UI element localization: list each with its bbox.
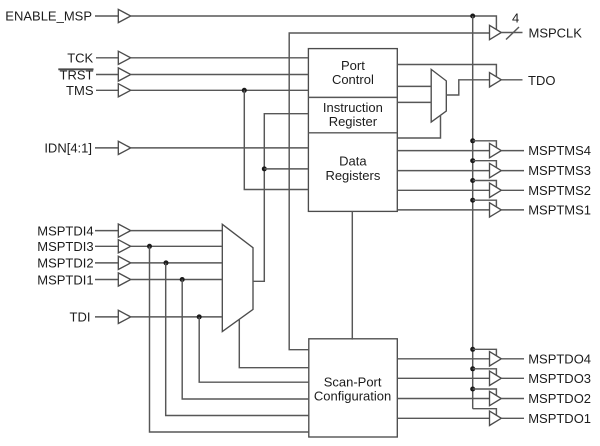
- svg-text:MSPTMS3: MSPTMS3: [528, 163, 591, 178]
- node enable MSPTDO3: [470, 366, 475, 371]
- wire MSPTDI1 to buffer: [95, 279, 118, 281]
- buffer MSPTDI3: [118, 240, 130, 253]
- wire port control TDO enable: [397, 65, 496, 78]
- wire enable jog MSPTDO3: [473, 369, 497, 376]
- wire IDN to data registers: [131, 147, 309, 149]
- output MSPTDO1 buffer: [490, 411, 502, 425]
- svg-text:Scan-Port: Scan-Port: [324, 375, 382, 390]
- wire MSPTDO1 from scan-port: [397, 417, 489, 419]
- wire enable jog MSPTDO4: [473, 349, 497, 356]
- buffer MSPTDI1: [118, 273, 130, 286]
- wire TDI to mux: [131, 316, 223, 318]
- wire instruction register to mux M2 input 2: [397, 101, 431, 103]
- wire IDN to buffer: [95, 147, 118, 149]
- wire ENABLE_MSP to buffer: [95, 15, 118, 17]
- svg-text:MSPTDI2: MSPTDI2: [37, 256, 93, 271]
- output TDO buffer: [490, 73, 502, 87]
- node MSPTDI3 junction: [147, 244, 152, 249]
- node ENABLE_MSP junction: [470, 14, 475, 19]
- svg-text:Instruction: Instruction: [323, 100, 383, 115]
- svg-text:Configuration: Configuration: [314, 388, 391, 403]
- wire TDO output: [501, 79, 522, 81]
- svg-text:MSPTDI3: MSPTDI3: [37, 239, 93, 254]
- output MSPTMS3 buffer: [490, 163, 502, 177]
- svg-text:MSPTDO3: MSPTDO3: [528, 371, 591, 386]
- wire MSPTDI2 to mux: [131, 262, 223, 264]
- svg-text:MSPTDO2: MSPTDO2: [528, 391, 591, 406]
- wire TMS to port control: [131, 89, 309, 91]
- wire MSPTDO4 from scan-port: [397, 358, 489, 360]
- output MSPTDO4 buffer: [490, 352, 502, 366]
- output MSPCLK buffer: [490, 25, 502, 39]
- wire enable jog MSPTMS2: [473, 181, 497, 188]
- wire MSPTDO1 output: [501, 417, 524, 419]
- svg-text:Register: Register: [329, 114, 378, 129]
- node enable MSPTMS1: [470, 198, 475, 203]
- svg-text:TMS: TMS: [66, 83, 94, 98]
- wire MSPTMS3 output: [501, 170, 524, 172]
- svg-text:MSPTDO4: MSPTDO4: [528, 351, 591, 366]
- svg-text:MSPTDI4: MSPTDI4: [37, 223, 93, 238]
- wire enable jog MSPTDO2: [473, 389, 497, 396]
- wire ENABLE_MSP main run: [131, 16, 497, 30]
- wire MSPTMS2 output: [501, 189, 524, 191]
- svg-text:TDO: TDO: [528, 73, 555, 88]
- node enable MSPTMS2: [470, 178, 475, 183]
- output MSPTDO3 buffer: [490, 371, 502, 385]
- divider instruction-register / data-registers: [308, 132, 397, 134]
- wire mux M1 select from scan-port: [239, 320, 308, 368]
- svg-text:MSPTDO1: MSPTDO1: [528, 411, 591, 426]
- wire enable jog MSPTDO1 (rail end): [473, 409, 497, 416]
- wire TMS branch down to data registers: [244, 90, 308, 189]
- overline TRST: [58, 68, 93, 70]
- buffer TRST: [118, 68, 130, 81]
- wire MSPTMS3 from data registers: [397, 170, 489, 172]
- wire TCK to buffer: [96, 57, 118, 59]
- svg-text:IDN[4:1]: IDN[4:1]: [44, 141, 92, 156]
- wire TDI branch to scan-port: [199, 317, 309, 382]
- output MSPTMS2 buffer: [490, 183, 502, 197]
- wire MSPTDI2 to buffer: [95, 262, 118, 264]
- wire MSPTDI2 branch to scan-port: [166, 263, 309, 416]
- buffer TDI: [118, 310, 130, 323]
- buffer ENABLE_MSP: [118, 9, 130, 22]
- wire MSPTDI4 to mux: [131, 230, 223, 232]
- wire enable jog MSPTMS3: [473, 161, 497, 168]
- wire TRST to buffer: [96, 74, 118, 76]
- buffer IDN: [118, 141, 130, 154]
- node enable MSPTMS4: [470, 138, 475, 143]
- bus slash MSPCLK: [506, 27, 519, 40]
- mux M2 (TDO source selector): [431, 69, 446, 122]
- wire MSPTMS4 from data registers: [397, 150, 489, 152]
- divider port-control / instruction-register: [308, 96, 397, 98]
- wire scan-port clock to MSPCLK buffer: [289, 33, 489, 350]
- svg-text:MSPTMS4: MSPTMS4: [528, 143, 591, 158]
- svg-text:MSPCLK: MSPCLK: [529, 26, 583, 41]
- buffer MSPTDI2: [118, 256, 130, 269]
- node mux output branch: [262, 166, 267, 171]
- svg-text:MSPTMS2: MSPTMS2: [528, 183, 591, 198]
- wire TRST to port control: [131, 74, 309, 76]
- wire enable jog MSPTMS4: [473, 141, 497, 148]
- wire MSPTDI3 to mux: [131, 245, 223, 247]
- wire MSPCLK output: [501, 32, 522, 34]
- node enable MSPTMS3: [470, 158, 475, 163]
- wire mux M1 output to instruction register: [253, 114, 308, 282]
- wire ENABLE_MSP vertical enable rail: [472, 16, 474, 409]
- svg-text:Port: Port: [341, 58, 365, 73]
- scan-port configuration box: [309, 339, 398, 437]
- node enable MSPTDO4: [470, 347, 475, 352]
- wire mux output branch to data registers: [264, 168, 308, 170]
- svg-text:TDI: TDI: [70, 310, 91, 325]
- wire TMS to buffer: [96, 89, 118, 91]
- wire MSPTMS1 from data registers: [397, 209, 489, 211]
- wire port control to mux M2 input 1: [397, 85, 431, 87]
- buffer MSPTDI4: [118, 224, 130, 237]
- wire MSPTDI3 branch to scan-port: [150, 246, 309, 432]
- wire mux M2 output to TDO buffer: [446, 80, 489, 95]
- svg-text:4: 4: [512, 11, 519, 26]
- wire MSPTDO4 output: [501, 358, 524, 360]
- wire MSPTMS1 output: [501, 209, 524, 211]
- node TDI junction: [197, 314, 202, 319]
- buffer TCK: [118, 51, 130, 64]
- svg-text:MSPTDI1: MSPTDI1: [37, 272, 93, 287]
- wire MSPTMS2 from data registers: [397, 189, 489, 191]
- wire MSPTDI1 to mux: [131, 279, 223, 281]
- main register box: [308, 49, 397, 212]
- node TMS junction: [242, 88, 247, 93]
- wire MSPTDO2 output: [501, 398, 524, 400]
- mux M1 (MSPTDI/TDI selector): [222, 224, 253, 331]
- node MSPTDI1 junction: [180, 277, 185, 282]
- node MSPTDI2 junction: [164, 260, 169, 265]
- output MSPTDO2 buffer: [490, 391, 502, 405]
- svg-text:TCK: TCK: [67, 50, 93, 65]
- svg-text:Data: Data: [339, 154, 367, 169]
- wire MSPTMS4 output: [501, 150, 524, 152]
- output MSPTMS1 buffer: [490, 203, 502, 217]
- wire mux M2 select from data registers: [397, 115, 440, 138]
- svg-text:MSPTMS1: MSPTMS1: [528, 203, 591, 218]
- svg-text:ENABLE_MSP: ENABLE_MSP: [5, 9, 92, 24]
- wire enable jog MSPTMS1: [473, 200, 497, 207]
- wire MSPTDI4 to buffer: [95, 230, 118, 232]
- wire data-registers to scan-port: [351, 211, 353, 339]
- node enable MSPTDO2: [470, 387, 475, 392]
- svg-text:Registers: Registers: [325, 168, 380, 183]
- wire MSPTDO3 output: [501, 377, 524, 379]
- buffer TMS: [118, 84, 130, 97]
- output MSPTMS4 buffer: [490, 143, 502, 157]
- wire MSPTDI3 to buffer: [95, 245, 118, 247]
- wire TCK to port control: [131, 57, 309, 59]
- wire MSPTDO3 from scan-port: [397, 377, 489, 379]
- wire MSPTDO2 from scan-port: [397, 398, 489, 400]
- wire TDI to buffer: [95, 316, 118, 318]
- wire MSPTDI1 branch to scan-port: [182, 280, 309, 400]
- svg-text:Control: Control: [332, 72, 374, 87]
